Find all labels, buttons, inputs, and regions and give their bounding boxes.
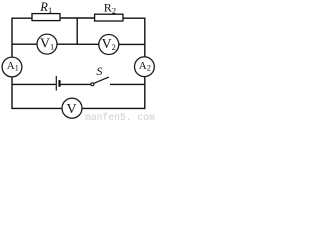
wire left vertical upper bbox=[11, 18, 13, 58]
ammeter A2 bbox=[135, 57, 155, 77]
wire top rail left segment bbox=[12, 17, 33, 19]
wire voltmeter rail right segment bbox=[119, 43, 145, 45]
svg-text:manfen5. com: manfen5. com bbox=[85, 112, 155, 122]
resistor R1 bbox=[32, 14, 60, 21]
wire left vertical lower bbox=[11, 77, 13, 109]
resistor R2 bbox=[95, 14, 123, 21]
voltmeter V1 bbox=[37, 34, 57, 54]
voltmeter V2 bbox=[99, 35, 119, 55]
ammeter A1 bbox=[2, 57, 22, 77]
battery cell negative plate bbox=[58, 80, 60, 87]
wire middle rail left segment bbox=[12, 83, 56, 85]
wire middle rail right segment bbox=[110, 83, 145, 85]
wire bottom rail left segment bbox=[12, 107, 62, 109]
wire right vertical upper bbox=[144, 18, 146, 58]
svg-text:S: S bbox=[96, 64, 102, 78]
voltmeter V bbox=[62, 98, 82, 118]
svg-text:V: V bbox=[67, 102, 77, 117]
switch S blade bbox=[94, 77, 109, 83]
wire middle rail between battery and switch bbox=[60, 83, 91, 85]
wire top rail right segment bbox=[122, 17, 146, 19]
switch S pivot bbox=[91, 83, 94, 86]
wire bottom rail right segment bbox=[82, 107, 145, 109]
wire right vertical lower bbox=[144, 76, 146, 109]
wire middle vertical between R1 and R2 bbox=[76, 18, 78, 44]
wire voltmeter rail middle segment bbox=[57, 43, 99, 45]
wire voltmeter rail left segment bbox=[12, 43, 37, 45]
wire top rail middle segment bbox=[59, 17, 96, 19]
battery cell positive plate bbox=[55, 76, 57, 91]
